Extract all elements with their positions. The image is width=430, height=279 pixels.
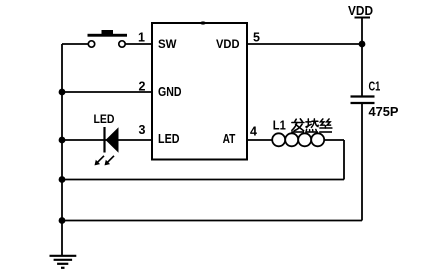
LED D1 arrow 1	[95, 156, 105, 166]
svg-text:L1: L1	[273, 119, 286, 133]
svg-text:475P: 475P	[369, 105, 399, 119]
heater label 热 underline	[305, 131, 318, 133]
wire: VDD symbol down through node to capacitor top	[361, 18, 363, 97]
wire: left rail top corner to switch left terminal	[62, 43, 88, 45]
capacitor C1 top plate	[351, 95, 375, 97]
junction dot at VDD node	[359, 41, 366, 48]
wire: right vertical of heater return	[343, 140, 345, 180]
LED D1 arrow 2	[105, 156, 115, 166]
switch S1 actuator	[102, 30, 114, 34]
heater label 发 (fa) glyph	[292, 119, 304, 131]
switch S1 right terminal	[119, 41, 125, 47]
switch S1 left terminal	[88, 41, 94, 47]
svg-text:LED: LED	[158, 132, 180, 146]
junction dot at bottom wire	[59, 217, 66, 224]
wire: pin 2 GND	[62, 91, 152, 93]
svg-text:4: 4	[250, 125, 257, 139]
wire: bottom horizontal to left rail	[62, 220, 362, 222]
heater label 丝 (si) glyph	[320, 119, 332, 128]
capacitor C1 bottom plate	[351, 102, 375, 104]
svg-text:C1: C1	[369, 79, 381, 93]
switch S1 bar	[88, 34, 128, 37]
wire: switch right terminal to pin 1	[125, 43, 152, 45]
svg-text:SW: SW	[158, 37, 177, 51]
wire: pin 4 AT to coil	[247, 139, 272, 141]
VDD power symbol bar	[355, 17, 371, 19]
ground symbol	[50, 256, 77, 268]
wire: pin 3 LED line	[62, 139, 152, 141]
svg-text:3: 3	[139, 123, 146, 137]
LED D1 triangle	[106, 127, 119, 152]
wire: capacitor bottom down	[361, 103, 363, 221]
wire: coil right to corner	[324, 139, 344, 141]
svg-text:5: 5	[253, 31, 260, 45]
inductor L1 coil loop 3	[298, 133, 311, 146]
inductor L1 coil loop 2	[285, 133, 298, 146]
inductor L1 coil loop 1	[272, 133, 285, 146]
svg-text:VDD: VDD	[348, 4, 373, 18]
LED D1 cathode bar	[103, 127, 105, 153]
svg-text:1: 1	[138, 30, 145, 44]
junction dot at GND wire	[59, 89, 66, 96]
heater label 丝 underline	[319, 131, 332, 133]
svg-text:VDD: VDD	[216, 37, 240, 51]
IC U1 body	[152, 23, 247, 160]
junction dot at heater return	[59, 176, 66, 183]
heater label 发 underline	[291, 131, 304, 133]
svg-text:LED: LED	[94, 114, 115, 126]
wire: pin 5 to VDD node	[247, 43, 362, 45]
svg-text:AT: AT	[223, 132, 236, 146]
heater label 热 (re) glyph	[306, 119, 318, 131]
inductor L1 coil loop 4	[311, 133, 324, 146]
wire: left vertical rail	[61, 44, 63, 256]
svg-text:GND: GND	[158, 85, 182, 99]
IC top-edge orientation mark	[200, 21, 206, 24]
junction dot at LED wire	[59, 137, 66, 144]
wire: heater return horizontal to left rail	[62, 179, 344, 181]
